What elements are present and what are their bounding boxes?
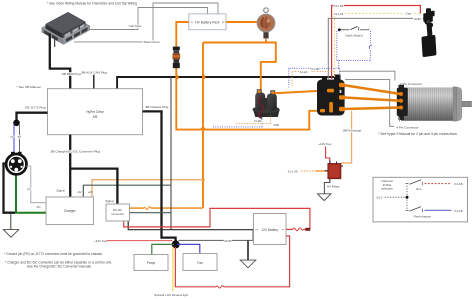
node: 12V distribution dot (172, 240, 180, 248)
DC-DC converter box (106, 204, 130, 221)
svg-text:Thermistors: Thermistors (143, 40, 160, 44)
wire: JIB charger/DC-DC plug (thick black) (69, 135, 71, 197)
wire: DC-DC ground out (black) (128, 221, 253, 241)
wire: throttle signal Gas (yellow dashed) (335, 13, 420, 77)
svg-text:K1-1 B5: K1-1 B5 (334, 4, 344, 8)
wire hop: orange over CAN at 176 (176, 75, 178, 79)
svg-text:JIB Charger/DC-DC Converter Pl: JIB Charger/DC-DC Converter Plug (50, 150, 100, 154)
wire: JIB precharge (pale orange) (341, 111, 352, 163)
svg-text:* Charger and DC-DC Converter: * Charger and DC-DC Converter can be eit… (5, 260, 112, 264)
svg-text:GND: GND (274, 124, 280, 127)
switch: Performance (406, 200, 423, 213)
svg-text:* Ground pin (PE) on J1772 con: * Ground pin (PE) on J1772 connector mus… (4, 252, 102, 256)
svg-text:Cell Taps: Cell Taps (129, 24, 142, 28)
svg-text:PP: PP (28, 189, 32, 192)
wire: JIB chassis plug (thick black) (143, 111, 176, 242)
wire: proximity (dark) (19, 125, 21, 155)
wire: charger HV feed (pale orange) (92, 180, 203, 197)
wire: 12V GND run (gray) (179, 239, 253, 241)
wire: contactor coil bottom (dashed blue) (213, 117, 262, 127)
wire: cell taps (gray) (90, 8, 208, 30)
wire: JIB J1772 plug (thick black) (17, 113, 48, 121)
wire: 4 pin connector lead (gray) (345, 79, 394, 126)
wire: motor phase W (orange) (343, 108, 401, 110)
battery pack B1 HV (189, 14, 226, 30)
svg-text:-HV: -HV (77, 190, 82, 194)
dash switch S1 (dashed blue enclosure) (337, 26, 372, 60)
wire: 2 pin connector lead (gray) (339, 71, 395, 80)
wire: coil return (dashed salmon) (292, 72, 335, 88)
svg-text:K1-1 A9: K1-1 A9 (288, 169, 298, 173)
svg-text:PP: PP (18, 137, 22, 139)
node: J1772 junction dot (13, 120, 20, 127)
contactor K1 (253, 90, 280, 119)
svg-text:GND: GND (414, 17, 422, 21)
svg-text:HyPer Drive: HyPer Drive (86, 110, 104, 114)
wire: proximity pilot to charger (gray) (26, 166, 46, 203)
wire: DC-DC aux out (teal) (129, 212, 171, 214)
svg-text:+12V Key: +12V Key (318, 142, 332, 146)
wire hop: orange run over vertical at 203 (201, 128, 205, 130)
svg-text:JIB: JIB (93, 115, 99, 119)
charger box (46, 197, 94, 225)
ground: relay (318, 194, 332, 201)
wire: reverse light (yellow) (172, 247, 174, 292)
wire: thermistors (gray) (74, 3, 218, 42)
battery B2 12V (254, 214, 287, 245)
wire: control pilot (blue) (13, 125, 15, 155)
connector J1 J1772 inlet (6, 152, 26, 175)
switch: Eco (406, 180, 423, 195)
ground: 12V battery (240, 260, 256, 268)
svg-text:Gas: Gas (406, 12, 412, 16)
wire: pedal ground (gray) (328, 18, 413, 79)
wire: chassis GND drop (dark gray) (170, 77, 172, 230)
svg-text:JIB AUX CAN Plug: JIB AUX CAN Plug (81, 71, 107, 75)
svg-text:Converter: Converter (111, 212, 124, 216)
wire: HV+ vertical drop to DC-DC (orange) (202, 43, 204, 208)
wire: relay to ground (324, 181, 329, 194)
wire: CAN bus run (thick black) (117, 77, 339, 89)
svg-text:JIB BMS Plug: JIB BMS Plug (62, 72, 81, 76)
svg-text:+12V Key: +12V Key (94, 239, 108, 243)
svg-text:K1-2B: K1-2B (312, 67, 320, 71)
motor M1 Hyper9 (397, 85, 472, 121)
svg-text:JIB J1772 Plug: JIB J1772 Plug (25, 105, 46, 109)
junction box JIB (48, 89, 143, 135)
svg-text:Fan: Fan (197, 261, 203, 265)
svg-text:JIB Precharge: JIB Precharge (342, 129, 361, 133)
fuse F2 DC-DC feed squiggle (144, 207, 151, 210)
svg-text:* See Orion Wiring Manual for: * See Orion Wiring Manual for Thermistor… (47, 1, 137, 5)
wire: relay feed from JIB (orange dashes + solid) (301, 170, 328, 172)
svg-text:Signal: Signal (105, 199, 114, 203)
fuse F1 HV (173, 47, 181, 69)
wire: HV B- battery left to fuse to controller (orange) (176, 22, 189, 47)
wire: +12V key tap (pale red) (107, 240, 173, 242)
svg-text:+HV: +HV (88, 190, 93, 194)
svg-text:K1-2: K1-2 (377, 196, 383, 200)
wire: +12V key to relay (red) (326, 147, 330, 164)
wire: chassis ground stem (10, 214, 12, 230)
wire: Eco output (dashed red) (425, 183, 452, 185)
wire: disconnect output run (orange) (265, 39, 267, 42)
svg-text:* See JIB Manual: * See JIB Manual (17, 85, 41, 89)
svg-text:GND: GND (224, 239, 232, 243)
wire: Performance output (purple) (425, 209, 452, 211)
BMS U1 Orion (42, 12, 91, 45)
svg-text:CP: CP (11, 137, 15, 139)
wire: fan feed (blue) (177, 244, 200, 253)
wire: motor phase V (orange) (343, 97, 401, 100)
node: profile common (406, 196, 409, 199)
ground: chassis at charger (3, 230, 18, 238)
wire: PE ground (thick black) (4, 164, 16, 213)
svg-text:HV Battery Pack: HV Battery Pack (195, 21, 220, 25)
controller U2 SME X1 (317, 75, 345, 116)
wire: motor phase U (orange) (343, 85, 401, 94)
svg-text:K1-2B: K1-2B (254, 120, 261, 123)
svg-text:Eco: Eco (416, 187, 422, 191)
wire: K1-2 dashed to node (385, 196, 405, 198)
svg-text:Pump: Pump (147, 261, 156, 265)
node: orange T junction charger feed (202, 178, 205, 181)
wire: contactor coil bottom 2 (dashed salmon) (236, 115, 271, 124)
svg-text:12V Battery: 12V Battery (261, 228, 278, 232)
svg-text:Charger: Charger (64, 209, 77, 213)
svg-text:Optional +12V Reverse light: Optional +12V Reverse light (154, 293, 188, 297)
svg-text:* See hyper 9 Manual for 2 pin: * See hyper 9 Manual for 2 pin and 4 pin… (378, 132, 457, 136)
wire: DC-DC +12V out (red) (124, 208, 310, 228)
svg-text:4 Pin Connector: 4 Pin Connector (396, 126, 418, 130)
wire: HV B+ battery right to disconnect (orange) (226, 21, 258, 23)
svg-text:K1-1B: K1-1B (455, 209, 463, 213)
wire: charger HV return (teal) (83, 185, 171, 197)
profile selection box (373, 177, 468, 222)
disconnect SW1 manual service disconnect (257, 8, 275, 39)
svg-text:selection: selection (381, 186, 393, 190)
svg-text:JIB Chassis Plug: JIB Chassis Plug (145, 105, 169, 109)
wire: pump feed (green) (152, 244, 174, 254)
svg-text:Signal: Signal (56, 189, 65, 193)
svg-text:K1-2A: K1-2A (300, 70, 308, 74)
fan box (183, 254, 217, 271)
svg-text:HV Relay: HV Relay (327, 185, 340, 189)
svg-text:2 Pin Connector: 2 Pin Connector (400, 82, 422, 86)
wire: AC from inlet to charger (green) (16, 176, 46, 213)
wire: battery loop bottom (red) (224, 236, 290, 287)
svg-text:K1-1B: K1-1B (455, 182, 463, 186)
wire: dash switch to contactor coil (dashed blue) (289, 60, 340, 87)
wire hop: orange over CAN at 203 (203, 75, 205, 79)
pump box (134, 255, 168, 271)
wire: BMS to JIB BMS plug (thick black) (50, 34, 70, 89)
svg-text:Dash Switch: Dash Switch (346, 34, 363, 38)
wire: key switch +12V to pedal (red) (332, 6, 421, 80)
fuse F3 12V battery (red squiggle) (286, 228, 310, 231)
relay K2 HV relay (325, 161, 343, 182)
svg-text:Performance: Performance (414, 214, 432, 218)
wire: contactor to controller (orange) (275, 90, 331, 93)
pedal throttle assembly (421, 8, 436, 57)
svg-text:See the Charger/DC-DC Converte: See the Charger/DC-DC Converter manuals (27, 265, 91, 269)
svg-text:K1-1 A5: K1-1 A5 (334, 12, 344, 16)
wire: JIB AUX CAN plug stub (93, 75, 95, 89)
wire: GND to chassis (black) (247, 240, 249, 260)
